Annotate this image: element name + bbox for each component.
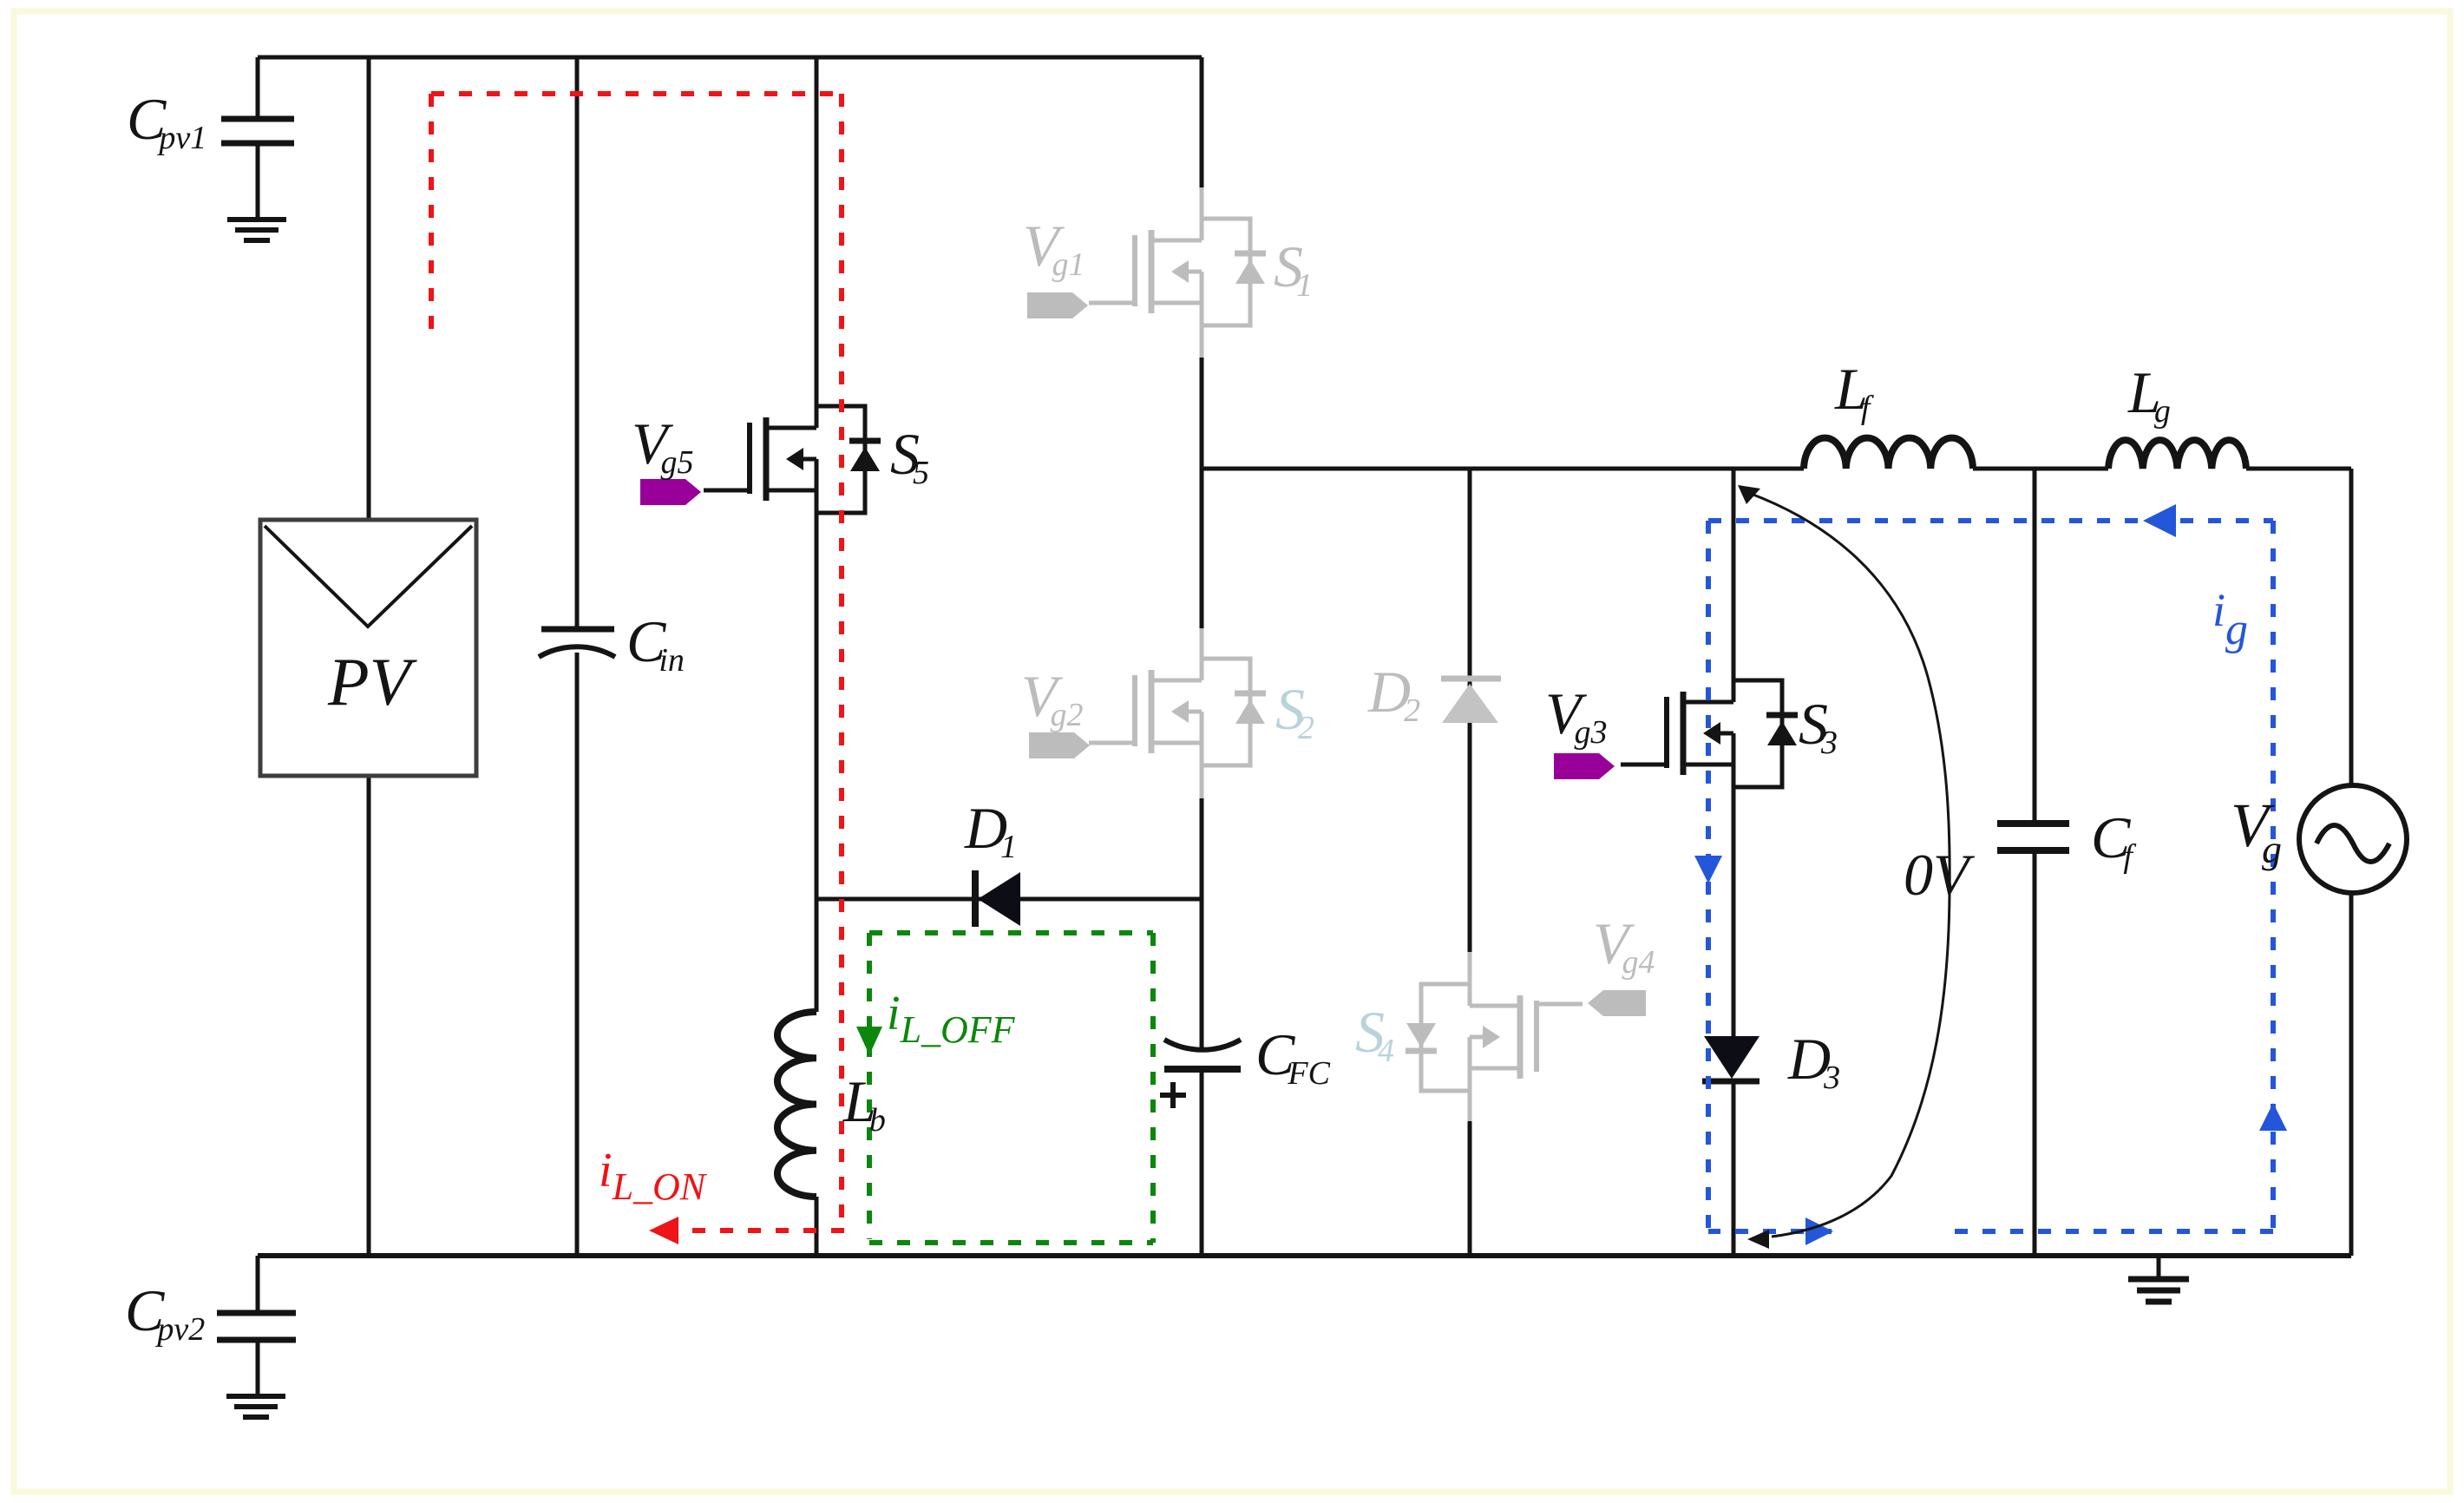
svg-text:PV: PV <box>327 644 418 719</box>
svg-text:iL_ON: iL_ON <box>599 1144 708 1208</box>
svg-text:Vg5: Vg5 <box>632 410 694 481</box>
svg-text:Lb: Lb <box>842 1068 886 1139</box>
svg-text:iL_OFF: iL_OFF <box>887 987 1016 1051</box>
svg-text:Cin: Cin <box>626 608 685 679</box>
svg-text:Vg2: Vg2 <box>1021 663 1084 733</box>
svg-text:S5: S5 <box>890 421 929 491</box>
svg-text:Cpv2: Cpv2 <box>125 1277 205 1348</box>
svg-text:ig: ig <box>2212 584 2248 654</box>
svg-text:S1: S1 <box>1274 233 1313 304</box>
svg-text:Lf: Lf <box>1834 356 1874 426</box>
svg-text:Vg3: Vg3 <box>1545 680 1608 751</box>
svg-text:S4: S4 <box>1355 999 1394 1069</box>
svg-text:D2: D2 <box>1367 659 1420 729</box>
svg-text:S2: S2 <box>1275 676 1314 746</box>
svg-text:Cf: Cf <box>2091 804 2136 875</box>
svg-text:Vg4: Vg4 <box>1593 910 1655 981</box>
svg-text:0V: 0V <box>1904 842 1976 908</box>
svg-text:CFC: CFC <box>1255 1021 1331 1092</box>
svg-text:Vg1: Vg1 <box>1023 213 1085 283</box>
svg-text:D3: D3 <box>1787 1026 1840 1096</box>
svg-text:Cpv1: Cpv1 <box>127 86 206 156</box>
svg-text:D1: D1 <box>964 795 1017 865</box>
svg-text:S3: S3 <box>1799 691 1838 761</box>
svg-text:Lg: Lg <box>2127 359 2171 430</box>
